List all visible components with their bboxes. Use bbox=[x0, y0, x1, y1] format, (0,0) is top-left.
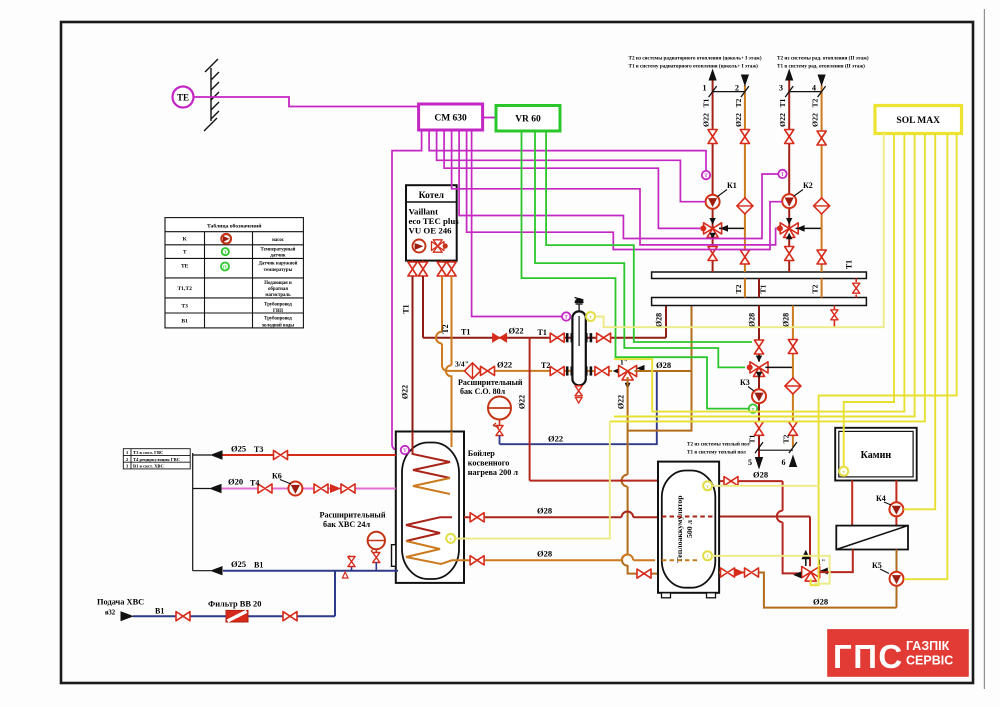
flange bbox=[566, 366, 573, 375]
manifold bottom valve to solar line bbox=[831, 306, 838, 328]
svg-text:5: 5 bbox=[748, 458, 752, 467]
wire TE to CM630 bbox=[194, 97, 419, 107]
svg-text:В1 в сист. ХВС: В1 в сист. ХВС bbox=[133, 464, 164, 469]
valve T2 at separator bbox=[550, 366, 564, 375]
svg-text:Котел: Котел bbox=[419, 191, 445, 201]
sensor T riser1 bbox=[702, 171, 710, 179]
pump K3 bbox=[752, 389, 766, 403]
svg-text:холодной воды: холодной воды bbox=[262, 324, 294, 329]
control wires VR60 (green) bbox=[522, 132, 753, 409]
control wires CM630 (magenta) bbox=[392, 130, 782, 450]
svg-text:К2: К2 bbox=[803, 181, 813, 190]
svg-text:Т: Т bbox=[224, 249, 227, 254]
wire accumulator bottom sensor bbox=[712, 556, 829, 584]
svg-text:Теплоаккумулятор: Теплоаккумулятор bbox=[675, 495, 684, 563]
accumulator top line (red) bbox=[530, 338, 658, 481]
boiler Котел Vaillant bbox=[406, 185, 459, 260]
fireplace return pipe with pump K4 bbox=[895, 481, 897, 526]
underfloor return riser bbox=[792, 306, 794, 448]
legend table bbox=[165, 218, 303, 328]
boiler pump icon bbox=[413, 240, 426, 253]
pipe from 3way to manifold drop bbox=[635, 370, 692, 372]
safety valve on B1 bbox=[342, 556, 355, 579]
riser 4 return bbox=[821, 85, 823, 272]
pipe underfloor return down to accumulator bbox=[622, 377, 658, 574]
arrow down from 3way bbox=[625, 383, 631, 390]
svg-text:ø32: ø32 bbox=[105, 610, 116, 617]
wire band line 3 bbox=[614, 134, 904, 412]
expansion tank C.O. 80L bbox=[488, 397, 511, 420]
svg-text:4: 4 bbox=[812, 84, 816, 93]
svg-text:СЕРВІС: СЕРВІС bbox=[906, 654, 953, 668]
svg-text:Т1: Т1 bbox=[538, 328, 547, 337]
svg-text:Ø20: Ø20 bbox=[228, 477, 243, 487]
valve at accumulator port bbox=[637, 569, 651, 578]
svg-text:Ø25: Ø25 bbox=[231, 444, 246, 454]
three-way valve underfloor bbox=[750, 362, 768, 377]
svg-text:Ø22: Ø22 bbox=[509, 326, 524, 336]
legend T sensor icon bbox=[222, 248, 229, 255]
supply manifold (top bar) bbox=[652, 272, 867, 279]
svg-text:В1: В1 bbox=[254, 561, 263, 570]
manifold link segment riser2 bbox=[744, 279, 746, 298]
fireplace Камин bbox=[835, 428, 917, 481]
svg-text:Ø22: Ø22 bbox=[778, 113, 787, 127]
accumulator right port to K5 loop bbox=[719, 573, 896, 608]
logo ГАЗПІК СЕРВІС bbox=[827, 629, 969, 677]
svg-text:Фильтр ВВ 20: Фильтр ВВ 20 bbox=[208, 600, 261, 609]
wire to pump K5 bbox=[904, 134, 948, 580]
wire to DHW tank solar sensor bbox=[610, 134, 925, 422]
line T3 hot water bbox=[221, 454, 396, 456]
legend TE sensor icon bbox=[221, 263, 229, 271]
svg-text:eco TEC plus: eco TEC plus bbox=[409, 216, 460, 226]
arrow into 3way bbox=[613, 368, 621, 375]
svg-text:магистраль: магистраль bbox=[265, 293, 291, 298]
svg-text:Т1,Т2: Т1,Т2 bbox=[177, 286, 192, 292]
svg-text:Ø28: Ø28 bbox=[748, 313, 757, 327]
wire to pump K2 bbox=[467, 130, 782, 250]
sensor TE (outdoor) bbox=[173, 87, 194, 108]
svg-text:ТЕ: ТЕ bbox=[177, 93, 189, 103]
svg-text:К: К bbox=[183, 237, 187, 243]
controller CM 630 bbox=[419, 104, 483, 130]
wire to 3way 1" actuator bbox=[811, 134, 957, 586]
svg-text:Ø28: Ø28 bbox=[753, 470, 768, 480]
svg-text:Бойлер: Бойлер bbox=[468, 449, 495, 458]
check valve 3/4 on T2 line bbox=[465, 363, 481, 379]
svg-text:Т1 в систему радиаторного ото: Т1 в систему радиаторного отопления (цок… bbox=[629, 63, 759, 70]
svg-text:Т3: Т3 bbox=[254, 445, 263, 454]
pump K5 bbox=[896, 550, 898, 608]
wire to pump K1 bbox=[437, 130, 706, 202]
svg-text:Ø28: Ø28 bbox=[813, 597, 828, 607]
svg-text:ГПС: ГПС bbox=[833, 638, 904, 675]
svg-text:VU OE 246: VU OE 246 bbox=[409, 226, 453, 236]
svg-text:Ø28: Ø28 bbox=[656, 360, 671, 370]
return line accumulator bottom Ø28 (orange, dashed inside) bbox=[464, 555, 655, 561]
pipe T2 boiler return from separator bbox=[436, 276, 612, 371]
sensor solar accumulator top bbox=[703, 481, 712, 490]
svg-text:Ø22: Ø22 bbox=[548, 434, 563, 444]
svg-text:температуры: температуры bbox=[264, 268, 293, 273]
svg-text:Т4 рециркуляция ГВС: Т4 рециркуляция ГВС bbox=[133, 457, 180, 462]
boiler valves bbox=[408, 262, 417, 276]
filter BB 20 bbox=[226, 610, 248, 622]
return manifold (bottom bar) bbox=[652, 298, 867, 306]
svg-text:ГАЗПІК: ГАЗПІК bbox=[906, 639, 950, 653]
svg-text:Т2: Т2 bbox=[811, 284, 820, 293]
svg-text:3/4": 3/4" bbox=[455, 360, 469, 369]
wire to pump K4 bbox=[904, 134, 936, 510]
riser 3 supply bbox=[788, 80, 790, 272]
pipe T1 boiler to separator bbox=[423, 276, 666, 338]
svg-text:Ø22: Ø22 bbox=[518, 395, 527, 409]
manifold link segment riser4 bbox=[821, 279, 823, 298]
svg-text:Т1: Т1 bbox=[702, 98, 711, 107]
svg-text:Vaillant: Vaillant bbox=[409, 207, 439, 217]
svg-text:Т2: Т2 bbox=[734, 98, 743, 107]
svg-text:В1: В1 bbox=[155, 607, 164, 616]
wire to boiler tank sensor bbox=[392, 130, 422, 450]
three-way mixing valve K1 circuit bbox=[704, 223, 722, 238]
upper coil (boiler circuit) bbox=[413, 432, 451, 479]
wire to fireplace sensor bbox=[844, 134, 894, 467]
manifold return drop bbox=[628, 306, 692, 431]
wire to riser3 sensor bbox=[459, 130, 778, 239]
pipe T1 boiler supply (to tank coil) bbox=[412, 276, 414, 432]
svg-text:Т: Т bbox=[183, 250, 187, 256]
wire to 3way K2 bbox=[452, 130, 777, 245]
svg-text:Т3 в сист. ГВС: Т3 в сист. ГВС bbox=[133, 450, 163, 455]
svg-text:Т3: Т3 bbox=[181, 304, 188, 310]
svg-text:Камин: Камин bbox=[861, 450, 892, 461]
manifold end valve bbox=[853, 279, 860, 298]
connection list table bbox=[123, 449, 190, 469]
pump K1 bbox=[706, 195, 720, 209]
wire to riser1 sensor bbox=[429, 130, 706, 171]
controller SOL MAX bbox=[875, 106, 962, 134]
svg-text:SOL MAX: SOL MAX bbox=[896, 116, 940, 126]
expansion tank ХВС 24л bbox=[368, 532, 385, 571]
drain valve below separator bbox=[575, 386, 582, 403]
svg-text:Т2 из системы радиаторного от: Т2 из системы радиаторного отопления (цо… bbox=[629, 55, 762, 62]
svg-text:Датчик наружной: Датчик наружной bbox=[259, 262, 298, 267]
svg-text:Ø25: Ø25 bbox=[231, 559, 246, 569]
controller VR 60 bbox=[496, 106, 560, 132]
valve T1 at separator bbox=[550, 333, 564, 342]
line B1 cold water bbox=[223, 570, 398, 572]
svg-text:Ø22: Ø22 bbox=[811, 113, 820, 127]
riser 1 supply bbox=[712, 80, 714, 272]
sensor on K3 line bbox=[749, 404, 757, 412]
svg-text:Подающая и: Подающая и bbox=[264, 281, 292, 286]
pipe T2 DHW top (boiler 4th port to tank top) bbox=[446, 276, 452, 432]
valve on T2 line bbox=[481, 366, 495, 375]
pump K2 bbox=[782, 194, 796, 208]
valve bbox=[597, 333, 611, 342]
riser 2 return bbox=[744, 85, 746, 272]
svg-text:бак С.О. 80л: бак С.О. 80л bbox=[460, 387, 506, 396]
underfloor supply riser with K3 bbox=[758, 306, 760, 459]
wire to 3way K1 bbox=[444, 130, 700, 228]
charge line boiler-to-accumulator Ø28 (red, dashed inside tank) bbox=[464, 511, 658, 517]
arrow bbox=[637, 365, 645, 372]
svg-text:Ø28: Ø28 bbox=[782, 313, 791, 327]
svg-text:Ø28: Ø28 bbox=[655, 313, 664, 327]
sensor T on separator bbox=[562, 312, 570, 320]
svg-text:500 л: 500 л bbox=[685, 519, 694, 538]
three-way valve 1" underfloor make-up bbox=[619, 365, 637, 380]
svg-text:Т2: Т2 bbox=[811, 98, 820, 107]
svg-text:Подача ХВС: Подача ХВС bbox=[97, 598, 144, 607]
svg-text:обратная: обратная bbox=[268, 287, 288, 292]
svg-text:Расширительный: Расширительный bbox=[320, 511, 386, 520]
svg-text:Т1 в систему рад. отопления (: Т1 в систему рад. отопления (ІІ этаж) bbox=[777, 63, 865, 70]
svg-text:Трубопровод: Трубопровод bbox=[264, 303, 292, 308]
wire to K3 sensor bbox=[522, 132, 750, 409]
pipe 3way to heat exchanger bbox=[818, 550, 853, 573]
svg-text:Расширительный: Расширительный bbox=[458, 378, 523, 387]
wire to separator sensor bbox=[472, 130, 562, 317]
svg-text:Т4: Т4 bbox=[250, 479, 259, 488]
wall hatch symbol bbox=[204, 59, 219, 131]
wire to separator solar sensor bbox=[595, 134, 883, 328]
svg-text:Т2: Т2 bbox=[541, 361, 550, 370]
svg-text:косвенного: косвенного bbox=[468, 459, 510, 468]
valve (filled) on T1 line bbox=[493, 333, 507, 342]
fitting below expansion tank bbox=[493, 420, 503, 445]
DHW tank Бойлер косвенного нагрева 200л bbox=[392, 432, 465, 583]
flange bbox=[585, 333, 592, 342]
three-way valve 1" accumulator charge bbox=[802, 567, 820, 582]
svg-text:Т1: Т1 bbox=[845, 260, 854, 269]
svg-text:Т1: Т1 bbox=[759, 284, 768, 293]
svg-text:2: 2 bbox=[735, 84, 739, 93]
line T4 recirculation bbox=[221, 488, 396, 490]
svg-text:Ø22: Ø22 bbox=[617, 395, 626, 409]
svg-text:Ø22: Ø22 bbox=[497, 360, 512, 370]
svg-text:В1: В1 bbox=[181, 319, 188, 325]
hydraulic separator bbox=[572, 311, 585, 385]
wire to 3way underfloor bbox=[535, 132, 745, 367]
re-draw dashed lines inside accumulator bbox=[662, 516, 716, 518]
svg-text:ГВП: ГВП bbox=[273, 309, 283, 314]
manifold link segment underfloor supply bbox=[758, 279, 760, 298]
svg-text:ТЕ: ТЕ bbox=[222, 265, 228, 269]
svg-text:3: 3 bbox=[779, 84, 783, 93]
svg-text:К3: К3 bbox=[740, 378, 750, 387]
sensor in fireplace bbox=[839, 467, 848, 476]
svg-text:VR 60: VR 60 bbox=[515, 115, 541, 125]
svg-text:датчик: датчик bbox=[270, 254, 286, 259]
svg-text:Ø22: Ø22 bbox=[734, 113, 743, 127]
sensor solar accumulator bottom bbox=[703, 551, 712, 560]
page edge line bbox=[983, 9, 985, 689]
svg-text:Таблица обозначений: Таблица обозначений bbox=[207, 223, 262, 230]
flange bbox=[585, 366, 592, 375]
svg-text:6: 6 bbox=[782, 458, 786, 467]
svg-text:Т2: Т2 bbox=[782, 434, 791, 443]
svg-text:1: 1 bbox=[703, 84, 707, 93]
svg-text:Ø28: Ø28 bbox=[537, 549, 552, 559]
svg-text:насос: насос bbox=[272, 238, 285, 243]
svg-text:Ø22: Ø22 bbox=[401, 385, 410, 399]
sensor solar on tank bbox=[446, 534, 455, 543]
solar wires SOL MAX (yellow) bbox=[455, 134, 956, 586]
wire to underfloor valve bbox=[546, 132, 752, 342]
svg-text:СМ 630: СМ 630 bbox=[434, 114, 467, 124]
air vent bbox=[575, 298, 584, 312]
legend pump icon bbox=[221, 234, 231, 244]
lower coil (solar/accumulator circuit) bbox=[406, 517, 452, 541]
svg-text:Т1: Т1 bbox=[778, 98, 787, 107]
flange bbox=[566, 333, 573, 342]
svg-text:К1: К1 bbox=[727, 181, 737, 190]
svg-text:Т2 из системы теплый пол: Т2 из системы теплый пол bbox=[687, 441, 750, 448]
svg-text:Ø28: Ø28 bbox=[537, 506, 552, 516]
svg-text:Температурный: Температурный bbox=[261, 248, 296, 253]
sensor T on tank bbox=[401, 446, 409, 454]
cold make-up line Ø22 (blue) bbox=[500, 372, 657, 444]
svg-text:Т1: Т1 bbox=[402, 304, 411, 313]
wire band line 4 bbox=[614, 134, 915, 417]
boiler fan icon bbox=[432, 240, 448, 252]
svg-text:нагрева 200 л: нагрева 200 л bbox=[468, 468, 519, 477]
svg-text:Т2 из системы рад. отопления: Т2 из системы рад. отопления (ІІ этаж) bbox=[777, 55, 869, 62]
collector bracket bbox=[193, 453, 211, 571]
pump K6 bbox=[288, 482, 302, 496]
wire accumulator top sensor bbox=[712, 485, 818, 487]
wire CM630-VR60 bbox=[483, 117, 497, 119]
svg-text:Т2: Т2 bbox=[441, 324, 450, 333]
accumulator tank 500L bbox=[658, 462, 719, 598]
svg-text:Ø22: Ø22 bbox=[702, 113, 711, 127]
svg-text:Т2: Т2 bbox=[734, 284, 743, 293]
heat exchanger bbox=[836, 526, 908, 550]
svg-text:бак ХВС 24л: бак ХВС 24л bbox=[323, 520, 370, 529]
svg-text:Трубопровод: Трубопровод bbox=[264, 317, 292, 322]
sensor solar on separator bbox=[586, 312, 595, 321]
valve bbox=[595, 366, 609, 375]
svg-text:ТЕ: ТЕ bbox=[181, 264, 189, 270]
three-way mixing valve K2 circuit bbox=[780, 223, 798, 238]
svg-text:Т1: Т1 bbox=[461, 328, 470, 337]
fireplace supply pipe bbox=[851, 481, 853, 526]
svg-text:Т1 в систему теплый пол: Т1 в систему теплый пол bbox=[687, 449, 746, 456]
sensor T riser3 bbox=[778, 170, 786, 178]
valve group on T4 bbox=[314, 484, 328, 493]
